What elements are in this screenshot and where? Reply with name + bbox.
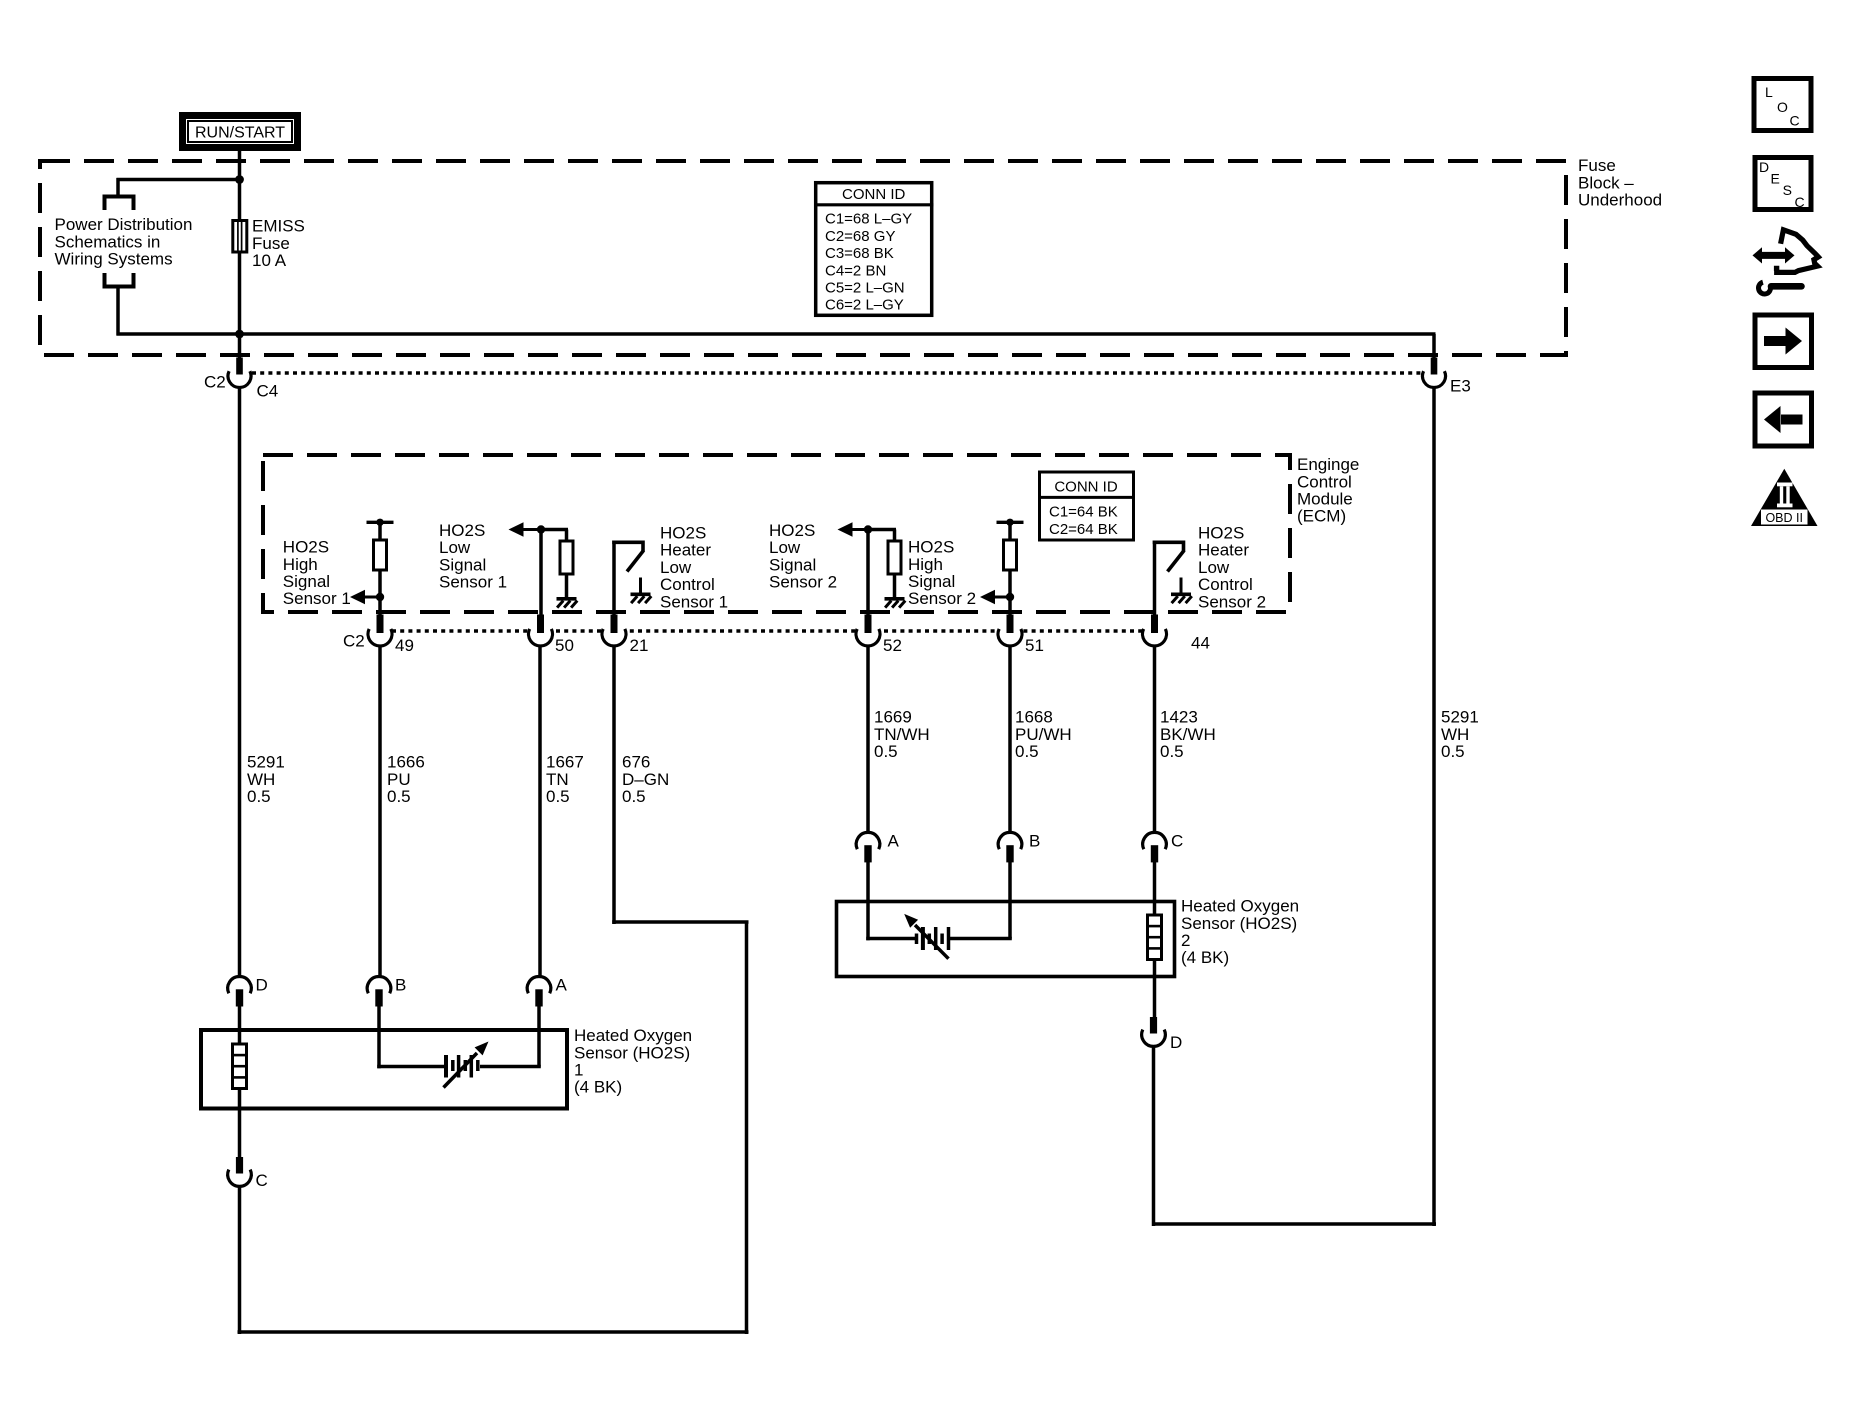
resistor R-high-2 [1004, 540, 1017, 570]
svg-text:(4 BK): (4 BK) [574, 1078, 622, 1097]
svg-text:C4=2 BN: C4=2 BN [825, 262, 886, 279]
icon vehicle data (double arrow) [1760, 252, 1787, 259]
svg-text:HO2S: HO2S [283, 538, 329, 557]
svg-text:(ECM): (ECM) [1297, 507, 1346, 526]
svg-text:52: 52 [883, 636, 902, 655]
svg-text:D–GN: D–GN [622, 770, 669, 789]
wire [1008, 569, 1012, 616]
svg-text:0.5: 0.5 [1441, 742, 1465, 761]
wire 1667 TN (pin50 to HO2S1 A) [538, 646, 542, 977]
svg-text:C4: C4 [257, 382, 279, 401]
svg-text:Sensor (HO2S): Sensor (HO2S) [1181, 914, 1297, 933]
node junction dot top [235, 175, 244, 184]
svg-text:WH: WH [1441, 725, 1469, 744]
connector C4 (pin) [229, 365, 251, 387]
svg-text:Enginge: Enginge [1297, 455, 1359, 474]
svg-text:B: B [1029, 832, 1040, 851]
heated oxygen sensor 1 box [201, 1030, 567, 1109]
svg-text:Signal: Signal [908, 572, 955, 591]
wire HO2S2 internal (B leg) [949, 937, 1012, 941]
node junction dot [864, 525, 872, 533]
svg-text:2: 2 [1181, 931, 1190, 950]
svg-text:D: D [256, 976, 268, 995]
variable sense element HO2S1 [444, 1055, 448, 1078]
svg-text:1423: 1423 [1160, 708, 1198, 727]
svg-text:D: D [1170, 1033, 1182, 1052]
connector E3 (pin) [1423, 365, 1445, 387]
wire 5291 WH (E3 to HO2S2 D) [1432, 388, 1436, 1227]
svg-text:C2=68 GY: C2=68 GY [825, 228, 895, 245]
internal supply bar pin 51 [997, 521, 1024, 524]
svg-text:High: High [908, 555, 943, 574]
arrow out pin 50 [509, 522, 524, 536]
svg-text:1668: 1668 [1015, 708, 1053, 727]
svg-text:51: 51 [1025, 636, 1044, 655]
connector HO2S2 pin B [998, 832, 1022, 849]
wire [893, 573, 897, 597]
svg-text:C1=64 BK: C1=64 BK [1049, 504, 1118, 521]
wire [565, 573, 569, 597]
node junction dot bottom [235, 330, 244, 339]
wire 1666 PU (pin49 to HO2S1 B) [378, 646, 382, 977]
icon wrench [1759, 282, 1771, 294]
connector ECM pin 50 [530, 623, 552, 645]
wire HO2S1 internal (B leg) [377, 1030, 381, 1068]
svg-text:E: E [1771, 171, 1780, 187]
svg-text:C: C [256, 1171, 268, 1190]
svg-text:A: A [888, 832, 900, 851]
svg-text:Signal: Signal [283, 572, 330, 591]
svg-text:1667: 1667 [546, 753, 584, 772]
engine control module (dashed box) [263, 455, 1290, 612]
svg-text:0.5: 0.5 [874, 742, 898, 761]
connector HO2S2 pin A [856, 832, 880, 849]
svg-text:Heater: Heater [1198, 541, 1249, 560]
svg-text:44: 44 [1191, 634, 1210, 653]
svg-text:0.5: 0.5 [1160, 742, 1184, 761]
svg-text:Sensor 1: Sensor 1 [660, 592, 728, 611]
svg-text:HO2S: HO2S [439, 521, 485, 540]
svg-text:RUN/START: RUN/START [195, 125, 285, 142]
svg-text:5291: 5291 [1441, 708, 1479, 727]
icon OBD II triangle [1751, 469, 1818, 526]
switch heater driver 1 [612, 541, 616, 617]
svg-text:Wiring Systems: Wiring Systems [55, 250, 173, 269]
connector ECM pin 21 [603, 623, 625, 645]
svg-text:HO2S: HO2S [1198, 524, 1244, 543]
table CONN ID (fuse block) [816, 183, 932, 316]
heater element HO2S2 [1153, 901, 1157, 916]
svg-text:PU/WH: PU/WH [1015, 725, 1072, 744]
svg-text:C: C [1790, 113, 1800, 129]
connector ECM pin 52 [857, 623, 879, 645]
svg-text:0.5: 0.5 [247, 787, 271, 806]
svg-text:Control: Control [1198, 575, 1253, 594]
svg-text:Module: Module [1297, 490, 1353, 509]
svg-text:Sensor 1: Sensor 1 [283, 589, 351, 608]
wire [539, 528, 543, 616]
wire 1668 PU/WH (pin51 to HO2S2 B) [1008, 646, 1012, 833]
table CONN ID (ECM) [1040, 472, 1134, 540]
fuse block - underhood (dashed harness box) [40, 161, 1566, 355]
fuse EMISS 10A [233, 221, 247, 253]
ground internal (heater driver 1) [639, 578, 642, 595]
svg-text:C2=64 BK: C2=64 BK [1049, 521, 1118, 538]
svg-text:50: 50 [555, 636, 574, 655]
svg-text:Sensor 2: Sensor 2 [908, 589, 976, 608]
svg-text:Sensor (HO2S): Sensor (HO2S) [574, 1043, 690, 1062]
resistor R-low-1 [560, 541, 573, 574]
icon LOC box [1754, 79, 1811, 131]
svg-text:C5=2 L–GN: C5=2 L–GN [825, 280, 905, 297]
svg-text:C2: C2 [343, 632, 365, 651]
connector ECM pin 44 [1144, 623, 1166, 645]
ground internal (sensor 1 low) [557, 597, 577, 601]
heated oxygen sensor 2 box [837, 902, 1175, 977]
resistor R-high-1 [374, 540, 387, 570]
connector HO2S2 pin C [1143, 832, 1167, 849]
svg-text:Fuse: Fuse [1578, 156, 1616, 175]
wire [378, 522, 382, 541]
svg-text:BK/WH: BK/WH [1160, 725, 1216, 744]
svg-text:L: L [1765, 84, 1773, 100]
arrow out pin 49 [365, 596, 381, 599]
icon arrow left box [1755, 393, 1812, 446]
node RUN/START (ignition voltage tag) [183, 116, 298, 148]
connector ECM pin 51 [999, 623, 1021, 645]
svg-text:Control: Control [660, 575, 715, 594]
connector HO2S1 pin A [527, 976, 551, 993]
svg-text:21: 21 [630, 636, 649, 655]
node junction dot [537, 525, 545, 533]
wire to power distribution box [117, 178, 242, 182]
svg-text:S: S [1783, 182, 1792, 198]
icon vehicle outline [1774, 230, 1818, 273]
node junction dot [1006, 593, 1014, 601]
svg-text:0.5: 0.5 [546, 787, 570, 806]
wire 1669 TN/WH (pin52 to HO2S2 A) [866, 646, 870, 833]
variable sense element HO2S2 [915, 934, 919, 945]
connector ECM pin 49 [369, 623, 391, 645]
power distribution schematic reference box (open bracket top) [105, 197, 134, 211]
wire bus to E3 [238, 332, 1436, 336]
svg-text:CONN ID: CONN ID [842, 186, 906, 203]
connector HO2S2 pin D [1150, 1017, 1157, 1034]
arrow out pin 51 [995, 596, 1011, 599]
connector HO2S1 pin C [236, 1157, 243, 1174]
resistor R-low-2 [888, 541, 901, 574]
node junction dot [376, 593, 384, 601]
ground internal (sensor 2 low) [885, 597, 905, 601]
svg-text:High: High [283, 555, 318, 574]
svg-text:HO2S: HO2S [660, 524, 706, 543]
wire 5291 WH (C4 to HO2S1 D) [238, 388, 242, 978]
svg-text:OBD II: OBD II [1765, 511, 1803, 525]
svg-text:HO2S: HO2S [908, 538, 954, 557]
arrow out pin 52 [838, 522, 853, 536]
switch heater driver 2 [1153, 541, 1157, 617]
svg-text:5291: 5291 [247, 753, 285, 772]
svg-text:Heated Oxygen: Heated Oxygen [574, 1026, 692, 1045]
icon DESC box [1755, 158, 1811, 210]
svg-text:Sensor 2: Sensor 2 [1198, 592, 1266, 611]
ground internal (heater driver 2) [1180, 578, 1183, 595]
svg-text:Signal: Signal [439, 555, 486, 574]
svg-text:C: C [1795, 194, 1805, 210]
svg-text:C3=68 BK: C3=68 BK [825, 245, 894, 262]
svg-text:O: O [1777, 99, 1788, 115]
svg-text:Low: Low [660, 558, 692, 577]
svg-text:1: 1 [574, 1061, 583, 1080]
connector HO2S1 pin D [228, 976, 252, 993]
svg-text:Schematics in: Schematics in [55, 232, 161, 251]
svg-text:B: B [395, 976, 406, 995]
svg-text:0.5: 0.5 [1015, 742, 1039, 761]
svg-text:0.5: 0.5 [387, 787, 411, 806]
svg-text:A: A [556, 976, 568, 995]
dotted harness boundary (ECM connector row) [392, 629, 1142, 632]
svg-text:EMISS: EMISS [252, 217, 305, 236]
svg-text:0.5: 0.5 [622, 787, 646, 806]
svg-text:Heated Oxygen: Heated Oxygen [1181, 897, 1299, 916]
wire [540, 528, 568, 532]
svg-text:CONN ID: CONN ID [1054, 479, 1118, 496]
wire [378, 569, 382, 616]
wire [866, 528, 870, 616]
power distribution schematic reference box (open bracket bottom) [105, 273, 134, 287]
wire [1008, 522, 1012, 541]
svg-text:Fuse: Fuse [252, 234, 290, 253]
wire HO2S2 internal (A leg) [866, 901, 870, 940]
svg-text:(4 BK): (4 BK) [1181, 948, 1229, 967]
svg-text:HO2S: HO2S [769, 521, 815, 540]
svg-text:49: 49 [395, 636, 414, 655]
svg-text:C: C [1171, 832, 1183, 851]
svg-text:Block –: Block – [1578, 173, 1634, 192]
svg-text:PU: PU [387, 770, 411, 789]
internal supply bar pin 49 [367, 521, 394, 524]
svg-text:676: 676 [622, 753, 650, 772]
svg-text:Low: Low [439, 538, 471, 557]
svg-text:TN/WH: TN/WH [874, 725, 930, 744]
svg-text:D: D [1759, 159, 1769, 175]
svg-text:Power Distribution: Power Distribution [55, 215, 193, 234]
wire 1423 BK/WH (pin44 to HO2S2 C) [1153, 646, 1157, 833]
svg-text:Low: Low [1198, 558, 1230, 577]
svg-text:Signal: Signal [769, 555, 816, 574]
heater element HO2S1 [238, 1029, 242, 1045]
svg-text:C1=68 L–GY: C1=68 L–GY [825, 211, 912, 228]
icon arrow right box [1755, 315, 1812, 368]
wire HO2S1 internal (A leg) [480, 1065, 541, 1069]
connector HO2S1 pin B [367, 976, 391, 993]
svg-text:Low: Low [769, 538, 801, 557]
svg-text:C2: C2 [204, 373, 226, 392]
dotted harness boundary (top) [252, 371, 1421, 374]
wire 676 D-GN (pin21 loop) [612, 646, 616, 924]
svg-text:E3: E3 [1450, 377, 1471, 396]
svg-text:1669: 1669 [874, 708, 912, 727]
svg-text:TN: TN [546, 770, 569, 789]
svg-text:Sensor 1: Sensor 1 [439, 573, 507, 592]
wire RUN/START feed [238, 151, 242, 222]
svg-text:Sensor 2: Sensor 2 [769, 573, 837, 592]
wire [867, 528, 896, 532]
svg-text:Underhood: Underhood [1578, 191, 1662, 210]
svg-text:C6=2 L–GY: C6=2 L–GY [825, 297, 904, 314]
svg-text:1666: 1666 [387, 753, 425, 772]
svg-text:Heater: Heater [660, 541, 711, 560]
svg-text:Control: Control [1297, 472, 1352, 491]
svg-text:WH: WH [247, 770, 275, 789]
svg-text:10 A: 10 A [252, 251, 287, 270]
wire from power distribution bottom [116, 285, 120, 336]
